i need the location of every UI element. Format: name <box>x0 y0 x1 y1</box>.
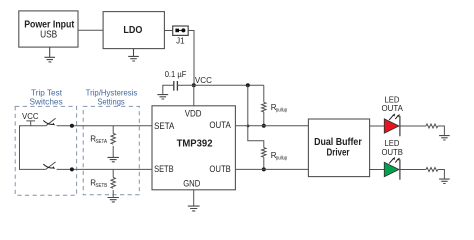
svg-text:Trip Test: Trip Test <box>31 88 63 97</box>
wire VDD drop <box>193 85 195 106</box>
ground (Power Input) <box>44 47 55 62</box>
wire resistor to ground A <box>438 126 445 135</box>
ground (RSETA) <box>108 157 119 161</box>
wire OUTA to buffer <box>235 125 308 127</box>
label LED OUTB <box>382 139 403 157</box>
svg-text:LDO: LDO <box>123 25 142 36</box>
junction (Rpullup2 on OUTB) <box>262 167 266 171</box>
label Trip/Hysteresis Settings <box>86 88 138 106</box>
ground (TMP392) <box>188 206 200 211</box>
wire OUTB to buffer <box>235 168 308 170</box>
ground (RSETB) <box>108 198 119 202</box>
svg-text:Dual Buffer: Dual Buffer <box>314 137 362 148</box>
svg-text:OUTA: OUTA <box>382 104 404 113</box>
svg-text:SETB: SETB <box>154 164 174 174</box>
svg-text:SETB: SETB <box>96 183 108 189</box>
switch S1 (SETA) <box>43 118 55 126</box>
wire resistor to ground B <box>438 170 445 179</box>
svg-text:pullup: pullup <box>276 156 287 162</box>
svg-text:OUTB: OUTB <box>209 164 230 174</box>
IC TMP392 U1 <box>152 106 235 190</box>
resistor RSETA <box>90 126 115 157</box>
label Trip Test Switches <box>30 88 63 106</box>
junction (crossing dot on OUTA) <box>247 125 250 128</box>
junction (Rpullup1 on OUTA) <box>262 124 266 128</box>
ground (LED A) <box>439 136 450 140</box>
svg-text:VDD: VDD <box>185 108 202 118</box>
junction (S2 output) <box>70 167 74 171</box>
power VCC (switch section) <box>22 112 39 126</box>
svg-text:Switches: Switches <box>30 98 63 107</box>
resistor Rpullup (OUTB) <box>262 148 288 170</box>
junction (S1 output) <box>70 124 74 128</box>
wire buffer to LED A <box>370 125 385 127</box>
wire Power Input to LDO <box>78 29 103 31</box>
svg-text:GND: GND <box>183 178 201 188</box>
wire LED A to resistor <box>400 125 426 127</box>
svg-text:OUTB: OUTB <box>382 148 403 157</box>
svg-text:VCC: VCC <box>22 112 39 121</box>
resistor RSETB <box>90 169 115 197</box>
block LDO <box>103 12 164 49</box>
wire VCC rail <box>177 84 264 86</box>
block Dual Buffer Driver <box>308 119 369 177</box>
resistor (LED B series) <box>426 168 438 172</box>
svg-text:USB: USB <box>40 30 57 41</box>
LED D1 red (OUTA) <box>384 114 400 137</box>
dashed box Trip/Hysteresis Settings <box>83 106 139 194</box>
svg-text:SETA: SETA <box>96 139 108 145</box>
ground (capacitor) <box>157 95 168 99</box>
svg-text:Trip/Hysteresis: Trip/Hysteresis <box>86 88 138 97</box>
svg-text:TMP392: TMP392 <box>177 138 213 150</box>
resistor (LED A series) <box>426 124 438 128</box>
ground (LED B) <box>439 179 450 183</box>
wire J1 to VCC node <box>188 31 194 86</box>
svg-text:Settings: Settings <box>97 98 124 107</box>
junction (VCC branch to OUTB pullup) <box>246 83 250 87</box>
dashed box Trip Test Switches <box>15 106 76 195</box>
svg-text:SETA: SETA <box>154 121 174 131</box>
svg-text:0.1 µF: 0.1 µF <box>165 70 187 79</box>
svg-text:VCC: VCC <box>195 76 212 85</box>
svg-text:OUTA: OUTA <box>209 120 230 130</box>
ground (LDO) <box>128 49 139 61</box>
wire VCC to switches rail <box>20 126 46 170</box>
wire GND pin <box>193 190 195 206</box>
wire VCC to Rpullup2 <box>248 85 264 147</box>
svg-text:pullup: pullup <box>276 108 287 114</box>
wire switch S2 to SETB <box>57 168 152 170</box>
svg-text:Driver: Driver <box>327 148 350 159</box>
node VCC <box>192 76 212 88</box>
wire LDO to J1 <box>164 30 172 32</box>
svg-text:LED: LED <box>385 95 400 104</box>
svg-text:J1: J1 <box>176 36 185 45</box>
wire buffer to LED B <box>370 169 385 171</box>
LED D2 green (OUTB) <box>384 157 400 180</box>
switch S2 (SETB) <box>43 162 55 170</box>
block Power Input USB <box>19 11 78 47</box>
label LED OUTA <box>382 95 404 113</box>
wire switch S1 to SETA <box>57 125 152 127</box>
wire LED B to resistor <box>400 169 426 171</box>
capacitor C1 0.1 uF <box>163 70 187 95</box>
resistor Rpullup (OUTA) <box>262 85 288 126</box>
connector J1 <box>173 26 189 45</box>
